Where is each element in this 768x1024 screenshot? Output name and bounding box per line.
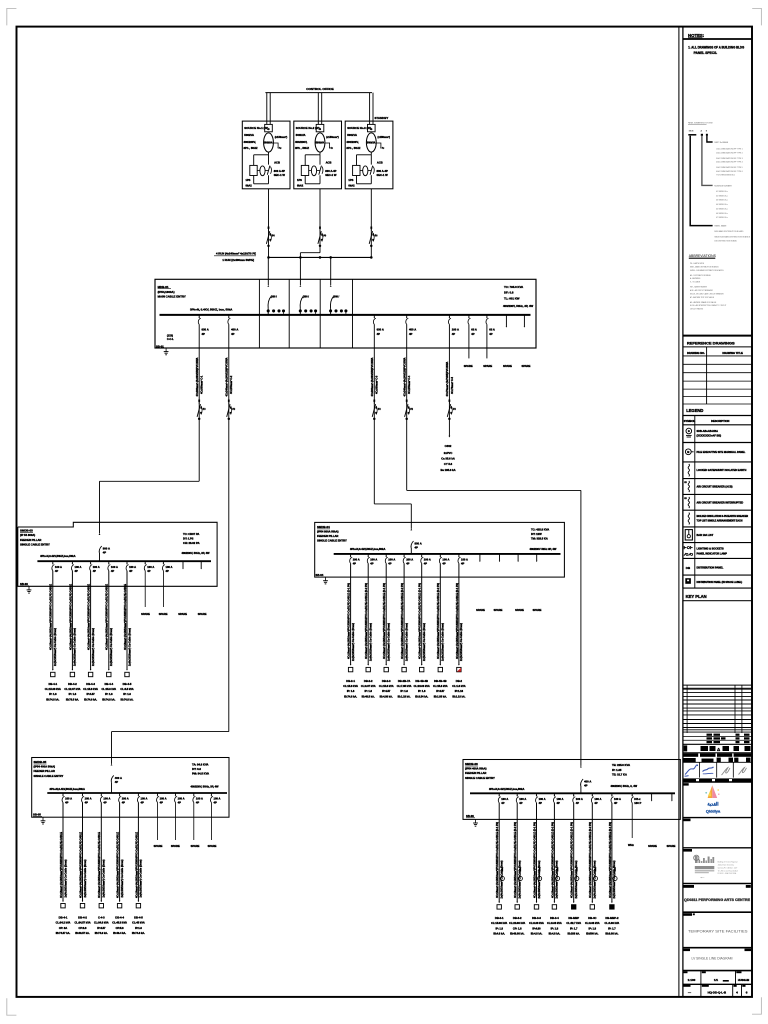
svg-text:CH: 28.02 PA: CH: 28.02 PA	[183, 541, 200, 545]
label SMDB-05 spares	[154, 844, 217, 848]
svg-text:(k): (k)	[378, 409, 381, 411]
svg-text:IB:1.18 kA.: IB:1.18 kA.	[452, 694, 465, 698]
svg-text:DB-2-2: DB-2-2	[364, 679, 373, 683]
svg-text:2x(4x10/10mm²) Cu-Cable (Draw): 2x(4x10/10mm²) Cu-Cable (Draw)	[83, 859, 87, 897]
ground MDB-01	[164, 348, 169, 355]
load C302 terminal	[440, 436, 455, 472]
svg-text:4P: 4P	[489, 332, 493, 336]
breaker SMDB-06 way 2	[516, 793, 526, 805]
wire generator G2 feeder drop	[300, 189, 320, 258]
wire SMDB-04 feeder 4	[403, 563, 405, 665]
svg-text:SYMBOL: SYMBOL	[684, 419, 696, 423]
svg-text:TM: 328.5 KA: TM: 328.5 KA	[531, 537, 548, 541]
switch fuse on generator feeder 1	[266, 227, 274, 247]
svg-text:IP: 1.8: IP: 1.8	[49, 692, 57, 696]
svg-text:CONTROL OFFICE: CONTROL OFFICE	[306, 87, 333, 91]
svg-text:SPARE: SPARE	[154, 844, 163, 848]
breaker SMDB-06 way 5	[573, 793, 583, 805]
label SMDB-05 ratings	[191, 762, 220, 788]
breaker SMDB-05 way 5	[137, 793, 147, 805]
breaker SMDB-03 way 7	[162, 561, 172, 573]
svg-text:(k): (k)	[323, 235, 326, 237]
breaker SMDB-03 way 3	[90, 561, 100, 573]
project title cell	[683, 885, 752, 912]
key plan box	[683, 601, 752, 689]
wire SMDB-06 spare drop 1	[631, 803, 633, 838]
svg-text:4Cx240mm²-(4x240/120)PVC/SWA: 4Cx240mm²-(4x240/120)PVC/SWA	[403, 357, 407, 396]
svg-text:IP:4.57: IP:4.57	[382, 689, 391, 693]
wire SMDB-05 incomer	[111, 758, 113, 794]
svg-text:400 A: 400 A	[115, 776, 122, 780]
wire control cable pair to G1	[267, 93, 270, 125]
junction dots	[268, 256, 373, 258]
panel SMDB-06 enclosure	[463, 760, 680, 820]
svg-text:4P: 4P	[584, 784, 588, 788]
legend row 7 socket	[685, 530, 713, 540]
tree branch B part number	[707, 136, 729, 144]
switch fuse MDB feeder 1	[197, 400, 206, 420]
breaker SMDB-04 way 2	[367, 554, 377, 566]
svg-text:4Cx16mm²-(4x16/16mm²)PVC/SWA/P: 4Cx16mm²-(4x16/16mm²)PVC/SWA/PVC-Cu/XLPE…	[382, 583, 386, 659]
svg-text:SMDB-05: SMDB-05	[34, 760, 47, 764]
svg-text:IB:74.8 kA.: IB:74.8 kA.	[102, 697, 115, 701]
svg-text:IP:4.57: IP:4.57	[97, 926, 106, 930]
svg-text:100 A: 100 A	[122, 797, 129, 801]
abbreviation rows	[690, 262, 726, 311]
svg-text:IB:74.8 kA.: IB:74.8 kA.	[46, 697, 59, 701]
svg-text:1PS: 1PS	[348, 178, 353, 182]
label SMDB-06 WH spare	[628, 843, 634, 847]
svg-text:6kA2: 6kA2	[246, 183, 253, 187]
breaker MDB outgoing 5	[448, 315, 458, 336]
panel numbering diagram	[688, 122, 713, 136]
logo Qiddiya	[683, 783, 752, 817]
breaker SMDB-04 way 6	[439, 554, 449, 566]
revision current row	[683, 745, 752, 752]
node CONTROL OFFICE label	[306, 87, 333, 91]
label SMDB-05 feeder 2 cable	[78, 832, 86, 898]
breaker MDB outgoing 1	[198, 315, 208, 336]
label SMDB-05 earth bar	[33, 812, 42, 816]
svg-text:(1X3): (1X3)	[167, 334, 173, 337]
svg-text:IB:74.9 kA.: IB:74.9 kA.	[84, 697, 97, 701]
svg-text:M: M	[687, 451, 689, 454]
svg-text:100 A: 100 A	[103, 797, 110, 801]
svg-text:IB:48.57 kA.: IB:48.57 kA.	[75, 931, 90, 935]
svg-text:100 A: 100 A	[65, 797, 72, 801]
svg-text:630 A: 630 A	[202, 328, 209, 332]
svg-text:SPARE: SPARE	[141, 612, 150, 616]
svg-text:CY 5.8: CY 5.8	[444, 462, 453, 466]
svg-text:DB-4B-4B: DB-4B-4B	[434, 679, 447, 683]
wire generator G2 internal loop	[305, 152, 320, 184]
breaker SMDB-03 way 1	[52, 561, 62, 573]
breaker SMDB-05 way 8	[193, 793, 203, 805]
wire SMDB-06 feeder 6	[591, 803, 593, 903]
tree branch A rows	[716, 191, 728, 219]
breaker SMDB-05 way 9	[210, 793, 220, 805]
label SMDB-06 feeder 7 cable	[608, 822, 616, 899]
breaker SMDB-03 way 4	[108, 561, 118, 573]
legend row 2 site marshal	[685, 449, 745, 455]
label SMDB-04 bus spec	[350, 547, 385, 551]
switch fuse MDB feeder 4	[405, 400, 414, 420]
svg-text:DB-2-3: DB-2-3	[382, 679, 391, 683]
svg-text:SPARE: SPARE	[208, 844, 217, 848]
breaker SMDB-06 spare stub 1	[651, 793, 652, 801]
svg-text:SOURCE No.1 (W): SOURCE No.1 (W)	[244, 126, 268, 130]
label SMDB-03 feeder 5 cable	[123, 584, 131, 666]
label SMDB-03 load 5	[120, 682, 133, 702]
legend row 4 acb	[684, 481, 732, 492]
wire SMDB-05 spare drop 3	[193, 802, 195, 840]
svg-text:SB-01: SB-01	[156, 345, 164, 349]
current transformer G3	[363, 166, 372, 176]
breaker SMDB-03 spare stub 1	[182, 561, 183, 569]
svg-text:4P: 4P	[501, 801, 504, 805]
svg-text:100 A: 100 A	[178, 797, 185, 801]
svg-text:IP: 1.35: IP: 1.35	[612, 768, 622, 772]
svg-text:4Cx16mm²-(4x16/16mm²)PVC/SWA/P: 4Cx16mm²-(4x16/16mm²)PVC/SWA/PVC-Cu/XLPE…	[455, 583, 459, 659]
svg-text:100 A: 100 A	[160, 797, 167, 801]
load SMDB-06 way 7 terminal	[610, 868, 617, 910]
svg-text:CL:15.08 kVA: CL:15.08 kVA	[45, 687, 61, 691]
svg-text:FEEDER PILLAR: FEEDER PILLAR	[34, 769, 55, 773]
svg-text:400 A: 400 A	[409, 328, 416, 332]
svg-text:4Cx16mm²-(4x16/16mm²)PVC/SWA/P: 4Cx16mm²-(4x16/16mm²)PVC/SWA/PVC-Cu/XLPE…	[123, 584, 127, 650]
svg-text:100 A: 100 A	[141, 797, 148, 801]
load SMDB-06 way 2 terminal	[515, 868, 522, 910]
bus SMDB-04 busbar	[334, 553, 561, 555]
breaker MDB outgoing 7	[486, 315, 495, 336]
svg-text:4Cx16mm²-(4x16/16mm²)PVC/SWA/P: 4Cx16mm²-(4x16/16mm²)PVC/SWA/PVC-Cu/XLPE…	[87, 584, 91, 650]
breaker SMDB-06 incomer	[581, 779, 592, 788]
svg-text:100 A: 100 A	[576, 797, 583, 801]
svg-text:QD0311 PERFORMING ARTS CENTRE: QD0311 PERFORMING ARTS CENTRE	[684, 897, 750, 902]
panel SMDB-03 enclosure	[18, 522, 217, 586]
svg-text:400/230V 50Hz 3P, 4W: 400/230V 50Hz 3P, 4W	[530, 547, 557, 551]
circuit breaker ACB G2	[301, 165, 311, 175]
svg-text:(k): (k)	[232, 409, 235, 411]
svg-text:4P: 4P	[231, 332, 235, 336]
label SMDB-04 feeder 2 cable	[364, 583, 372, 661]
wire MDB outgoing feeder 4	[406, 324, 408, 490]
svg-text:63 A: 63 A	[471, 328, 477, 332]
svg-text:2x(4x10/10mm²) Cu-Cable (Draw): 2x(4x10/10mm²) Cu-Cable (Draw)	[369, 623, 373, 661]
svg-text:DY: 12W: DY: 12W	[531, 532, 542, 536]
breaker MDB spare stub 9	[524, 315, 526, 328]
label SMDB-04 ratings	[530, 527, 557, 551]
label SMDB-04 spares	[476, 608, 542, 612]
label SMDB-04 load 3	[379, 679, 394, 699]
svg-text:LV SINGLE LINE DIAGRAM: LV SINGLE LINE DIAGRAM	[692, 957, 733, 961]
load SMDB-05 way 2 terminal	[80, 901, 84, 908]
svg-text:4Cx16mm²-(4x16/16mm²)PVC/SWA/P: 4Cx16mm²-(4x16/16mm²)PVC/SWA/PVC-Cu/XLPE…	[570, 822, 574, 898]
label SMDB-04 earth bar	[316, 573, 325, 577]
label SMDB-03 title block	[20, 529, 50, 547]
svg-text:MDB: MDB	[689, 130, 694, 132]
breaker SMDB-06 way 4	[553, 793, 563, 805]
svg-text:(k): (k)	[453, 409, 456, 411]
load SMDB-04 way 2 terminal	[366, 664, 370, 672]
wire generator junction bus	[269, 256, 372, 258]
breaker SMDB-06 way 3	[536, 793, 546, 805]
svg-text:3Ph , 50HZ: 3Ph , 50HZ	[346, 146, 360, 150]
label SMDB-06 load 6	[585, 916, 600, 936]
svg-text:2xPVC: 2xPVC	[444, 451, 453, 455]
wire SMDB-03 feeder 4	[108, 571, 110, 670]
svg-text:4P: 4P	[353, 562, 356, 566]
svg-text:800 A-4P: 800 A-4P	[274, 169, 285, 173]
svg-text:SPARE: SPARE	[178, 612, 187, 616]
wire MDB outgoing feeder 6	[468, 324, 470, 358]
svg-text:FEEDER PILLAR: FEEDER PILLAR	[20, 538, 41, 542]
svg-text:4Cx10mm²-(4x10/10mm²)PVC/SWA/P: 4Cx10mm²-(4x10/10mm²)PVC/SWA/PVC-Cu/XLPE…	[68, 584, 72, 650]
wire MDB incomer 3	[330, 257, 371, 286]
load SMDB-06 way 6 terminal	[590, 868, 597, 910]
svg-text:DB-4-5: DB-4-5	[123, 682, 132, 686]
label SMDB-06 spares	[648, 844, 676, 848]
breaker MDB outgoing 4	[406, 315, 416, 336]
reference drawings table	[683, 347, 752, 404]
wire MDB outgoing feeder 2	[228, 324, 230, 731]
svg-text:IB:74.8 kA.: IB:74.8 kA.	[344, 694, 357, 698]
svg-text:DB-MBP: DB-MBP	[568, 916, 579, 920]
svg-text:SPARE: SPARE	[503, 364, 512, 368]
svg-text:(300 /: (300 /	[303, 295, 309, 298]
label SMDB-06 title block	[465, 762, 495, 780]
svg-text:DB-4C: DB-4C	[588, 916, 596, 920]
svg-text:(x150mm²): (x150mm²)	[275, 135, 288, 139]
svg-text:IP:1.18: IP:1.18	[455, 689, 464, 693]
svg-text:—: —	[688, 990, 691, 994]
svg-text:2x(4x10/10mm²) Cu-Cable (Draw): 2x(4x10/10mm²) Cu-Cable (Draw)	[441, 623, 445, 661]
svg-text:CP: 8A: CP: 8A	[59, 926, 68, 930]
bus SMDB-06 busbar	[470, 792, 675, 794]
svg-text:CL:23.08 kVA: CL:23.08 kVA	[509, 921, 525, 925]
wire SMDB-06 feeder 3	[536, 803, 538, 903]
svg-text:Ca 35.6 kA: Ca 35.6 kA	[441, 457, 455, 461]
docno row	[684, 984, 748, 997]
svg-text:4Cx240mm² C-4: 4Cx240mm² C-4	[407, 375, 411, 394]
svg-text:CL:15.8 kVA: CL:15.8 kVA	[343, 684, 358, 688]
svg-text:4P: 4P	[576, 801, 579, 805]
svg-text:SPARE: SPARE	[198, 612, 207, 616]
svg-text:4P: 4P	[415, 546, 419, 550]
legend header	[686, 408, 703, 413]
label generator G2 cable note	[325, 135, 339, 150]
svg-text:TE: 31.7 KA: TE: 31.7 KA	[612, 772, 627, 776]
switch fuse on generator feeder 3	[369, 227, 377, 247]
svg-text:02 SMDB 03-x: 02 SMDB 03-x	[716, 195, 728, 197]
label SMDB-06 load 2	[509, 916, 525, 936]
breaker SMDB-04 way 4	[403, 554, 413, 566]
load SMDB-03 way 3 terminal	[88, 669, 92, 677]
breaker SMDB-04 spare stub 2	[499, 554, 500, 562]
label MDB feeder 5 cable spec	[445, 361, 454, 396]
svg-text:KEY PLAN: KEY PLAN	[686, 594, 707, 599]
generator terminal box G1	[265, 124, 273, 131]
label SMDB-06 load 3	[529, 916, 544, 936]
svg-text:500kVA: 500kVA	[367, 142, 376, 145]
svg-text:ABBREVIATIONS: ABBREVIATIONS	[689, 254, 717, 258]
svg-text:04 SMDB 03-x: 04 SMDB 03-x	[716, 204, 728, 206]
svg-text:MDB/SDB NUMBER: MDB/SDB NUMBER	[714, 186, 732, 188]
svg-text:CL:23.06 kVA: CL:23.06 kVA	[414, 684, 430, 688]
label SMDB-05 load 1	[56, 915, 71, 935]
switch fuse MDB feeder 3	[372, 400, 381, 420]
breaker SMDB-03 way 2	[71, 561, 81, 573]
svg-text:C-4-3: C-4-3	[98, 915, 105, 919]
svg-text:(k): (k)	[410, 409, 413, 411]
svg-text:IP: 1.7: IP: 1.7	[570, 926, 578, 930]
svg-text:4Cx10mm²-(4x10/10mm²)PVC/SWA/P: 4Cx10mm²-(4x10/10mm²)PVC/SWA/PVC-Cu/XLPE…	[364, 583, 368, 659]
svg-text:SB-04: SB-04	[316, 573, 324, 577]
generator terminal box G3	[368, 124, 376, 131]
svg-text:IP: 1.8: IP: 1.8	[364, 689, 372, 693]
label SMDB-06 load 1	[491, 916, 507, 936]
generator terminal box G2	[316, 124, 324, 131]
svg-text:(IP54,1600A): (IP54,1600A)	[158, 290, 175, 294]
wire MDB incomer 2	[300, 257, 302, 286]
svg-text:800 A: 800 A	[103, 547, 110, 551]
breaker SMDB-05 way 1	[62, 793, 72, 805]
label SMDB-06 load 7	[605, 916, 620, 936]
breaker SMDB-03 way 5	[126, 561, 136, 573]
label SMDB-04 feeder 1 cable	[347, 583, 355, 661]
svg-text:4Cx300mm²-(4x300/150)PVC/SWA: 4Cx300mm²-(4x300/150)PVC/SWA	[195, 357, 199, 396]
key plan header	[686, 594, 707, 599]
label SMDB-06 feeder 1 cable	[495, 822, 503, 899]
svg-text:3Ph+N,0.4kV,50HZ,bus,50kA: 3Ph+N,0.4kV,50HZ,bus,50kA	[489, 787, 524, 791]
svg-text:IP: 1.8: IP: 1.8	[551, 926, 559, 930]
svg-text:4P: 4P	[75, 569, 78, 573]
svg-text:100 A: 100 A	[406, 558, 413, 562]
svg-text:LIGHTING & SOCKETS: LIGHTING & SOCKETS	[697, 547, 725, 550]
legend row 5 acb withdrawable	[684, 497, 743, 508]
wire generator G1 feeder drop	[268, 189, 270, 258]
ground SMDB-06	[473, 819, 478, 826]
panel SMDB-05 enclosure	[32, 758, 229, 818]
legend table grid	[683, 416, 752, 589]
breaker MDB incomer 3	[329, 295, 347, 315]
wire SMDB-03 spare drop 1	[144, 571, 146, 607]
svg-text:06 SMDB 03-x: 06 SMDB 03-x	[716, 213, 728, 215]
generator enclosure box G2	[294, 121, 342, 189]
svg-text:CL:15.8 kVA: CL:15.8 kVA	[433, 684, 448, 688]
label STANDBY	[375, 116, 389, 120]
project cell	[683, 819, 752, 848]
svg-text:IB:8.08 kA.: IB:8.08 kA.	[605, 932, 618, 936]
label SMDB-03 feeder 2 cable	[68, 584, 76, 666]
label MDB-01 title	[158, 285, 186, 299]
svg-text:TA: 84.8 KVA: TA: 84.8 KVA	[192, 762, 209, 766]
label SMDB-06 load 5	[566, 916, 581, 936]
svg-text:DY: LPS: DY: LPS	[183, 537, 194, 541]
breaker SMDB-05 way 7	[175, 793, 185, 805]
svg-text:CL:9.07 kVA: CL:9.07 kVA	[361, 684, 376, 688]
tree branch MDB panel name	[690, 136, 727, 228]
svg-text:CP:8.8: CP:8.8	[79, 926, 88, 930]
svg-text:IB:4.86 kA.: IB:4.86 kA.	[380, 694, 393, 698]
svg-text:4Cx16mm²-(4x16/16mm²)PVC/SWA/P: 4Cx16mm²-(4x16/16mm²)PVC/SWA/PVC-Cu/XLPE…	[608, 822, 612, 898]
svg-text:400 A: 400 A	[584, 780, 591, 784]
svg-text:400/230V, 50Hz, 3P, 4W: 400/230V, 50Hz, 3P, 4W	[182, 551, 211, 555]
svg-text:DB-4-3: DB-4-3	[86, 682, 95, 686]
label SMDB-04 load 6	[433, 679, 448, 699]
breaker SMDB-06 way 8	[631, 793, 641, 805]
label MDB-01 ratings	[503, 285, 534, 308]
svg-text:03 SMDB 03-x: 03 SMDB 03-x	[716, 200, 728, 202]
svg-text:4P: 4P	[370, 562, 373, 566]
wire SMDB-03 feeder 1	[52, 571, 54, 670]
svg-text:AIR CIRCUIT BREAKER (ACB): AIR CIRCUIT BREAKER (ACB)	[697, 486, 733, 489]
svg-text:SMDB-03: SMDB-03	[20, 529, 33, 533]
svg-text:LOCKED GATE/SHUNT ISOLATED EAR: LOCKED GATE/SHUNT ISOLATED EARTH	[697, 469, 747, 472]
svg-text:2x(4x16/16mm²) Cu-Cable (Draw): 2x(4x16/16mm²) Cu-Cable (Draw)	[459, 623, 463, 661]
svg-text:100 A: 100 A	[75, 565, 82, 569]
wire SMDB-04 feeder 6	[439, 563, 441, 665]
svg-text:4P: 4P	[160, 801, 163, 805]
svg-text:IB:74.9 kA.: IB:74.9 kA.	[95, 931, 108, 935]
svg-text:CL:4.08 kVA: CL:4.08 kVA	[605, 921, 620, 925]
wire MDB outgoing feeder 3	[373, 324, 375, 504]
svg-text:DRAWING NO.: DRAWING NO.	[687, 351, 705, 355]
svg-text:TE: 225.0 KVA: TE: 225.0 KVA	[612, 763, 630, 767]
svg-text:7 KITCHEN/DINING BLD: 7 KITCHEN/DINING BLD	[716, 175, 736, 177]
svg-text:IB:3.54 kA.: IB:3.54 kA.	[415, 694, 428, 698]
svg-text:100 A: 100 A	[519, 797, 526, 801]
switch fuse MDB feeder 5	[447, 400, 456, 420]
svg-text:SPARE: SPARE	[464, 364, 473, 368]
svg-text:PANEL SPECS.: PANEL SPECS.	[694, 51, 718, 55]
svg-text:3Ph+N,0.4kV,50HZ,bus,50kA: 3Ph+N,0.4kV,50HZ,bus,50kA	[40, 554, 75, 558]
breaker blade G2 outgoing	[319, 166, 323, 175]
svg-text:4P: 4P	[452, 332, 456, 336]
svg-text:01 SMDB 03-x: 01 SMDB 03-x	[716, 191, 728, 193]
svg-text:4P: 4P	[178, 801, 181, 805]
breaker MDB outgoing 3	[373, 315, 383, 336]
label SMDB-03 load 2	[64, 682, 80, 702]
label SMDB-04 load 7	[452, 679, 465, 699]
load SMDB-05 way 5 terminal	[136, 901, 140, 908]
svg-text:800 A: 800 A	[415, 542, 422, 546]
svg-text:PM: 84.5 KVA: PM: 84.5 KVA	[192, 772, 209, 776]
svg-text:SPARE: SPARE	[476, 608, 485, 612]
wire control cable pair to G2	[318, 93, 321, 125]
svg-text:4Cx16mm²-(4x16/16mm²)PVC/SWA/P: 4Cx16mm²-(4x16/16mm²)PVC/SWA/PVC-Cu/XLPE…	[347, 583, 351, 659]
svg-text:2x(4x16/16mm²) Cu-Cable (Draw): 2x(4x16/16mm²) Cu-Cable (Draw)	[53, 628, 57, 666]
circuit breaker ACB G1	[250, 165, 260, 175]
legend row 9 db	[686, 566, 724, 570]
svg-text:400/230V, 50Hz, 3, 4W: 400/230V, 50Hz, 3, 4W	[611, 784, 638, 788]
svg-text:2x(4x16/16mm²) Cu-Cable (Draw): 2x(4x16/16mm²) Cu-Cable (Draw)	[139, 859, 143, 897]
label SMDB-06 feeder 6 cable	[588, 822, 596, 899]
svg-text:4P: 4P	[129, 569, 132, 573]
label SMDB-03 ratings	[182, 532, 211, 555]
svg-text:100 A: 100 A	[353, 558, 360, 562]
svg-text:4Cx16mm²-(4x16/16mm²)PVC/SWA/P: 4Cx16mm²-(4x16/16mm²)PVC/SWA/PVC-Cu/XLPE…	[418, 583, 422, 659]
panel SMDB-04 enclosure	[315, 522, 565, 577]
svg-text:SINGLE CABLE ENTRY: SINGLE CABLE ENTRY	[465, 776, 495, 780]
label generator G3 cable note	[376, 135, 390, 150]
breaker SMDB-03 incomer	[99, 546, 110, 555]
load SMDB-06 way 5 terminal	[572, 868, 579, 910]
svg-text:SB-03: SB-03	[20, 582, 28, 586]
svg-text:BAR 13A LIST: BAR 13A LIST	[697, 534, 714, 537]
wire SMDB-05 feeder 1	[62, 802, 64, 901]
svg-text:SDB-AB+AB-DBA: SDB-AB+AB-DBA	[697, 429, 719, 433]
